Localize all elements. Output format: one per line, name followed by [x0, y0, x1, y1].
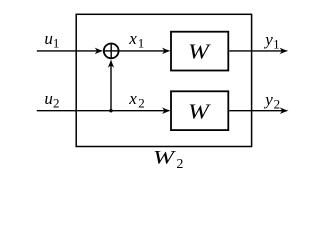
svg-text:2: 2 [138, 96, 145, 111]
svg-text:x: x [128, 89, 137, 108]
svg-text:x: x [128, 29, 137, 48]
svg-text:y: y [263, 30, 273, 49]
svg-text:1: 1 [138, 35, 145, 50]
svg-text:u: u [44, 89, 53, 108]
svg-text:u: u [44, 29, 53, 48]
svg-text:W: W [153, 147, 177, 168]
svg-text:y: y [263, 90, 273, 109]
svg-text:2: 2 [274, 97, 281, 112]
svg-text:W: W [188, 99, 212, 123]
svg-text:2: 2 [176, 157, 183, 172]
svg-text:2: 2 [53, 96, 60, 111]
svg-text:W: W [188, 39, 212, 63]
svg-text:1: 1 [273, 36, 280, 51]
svg-text:1: 1 [53, 36, 60, 51]
